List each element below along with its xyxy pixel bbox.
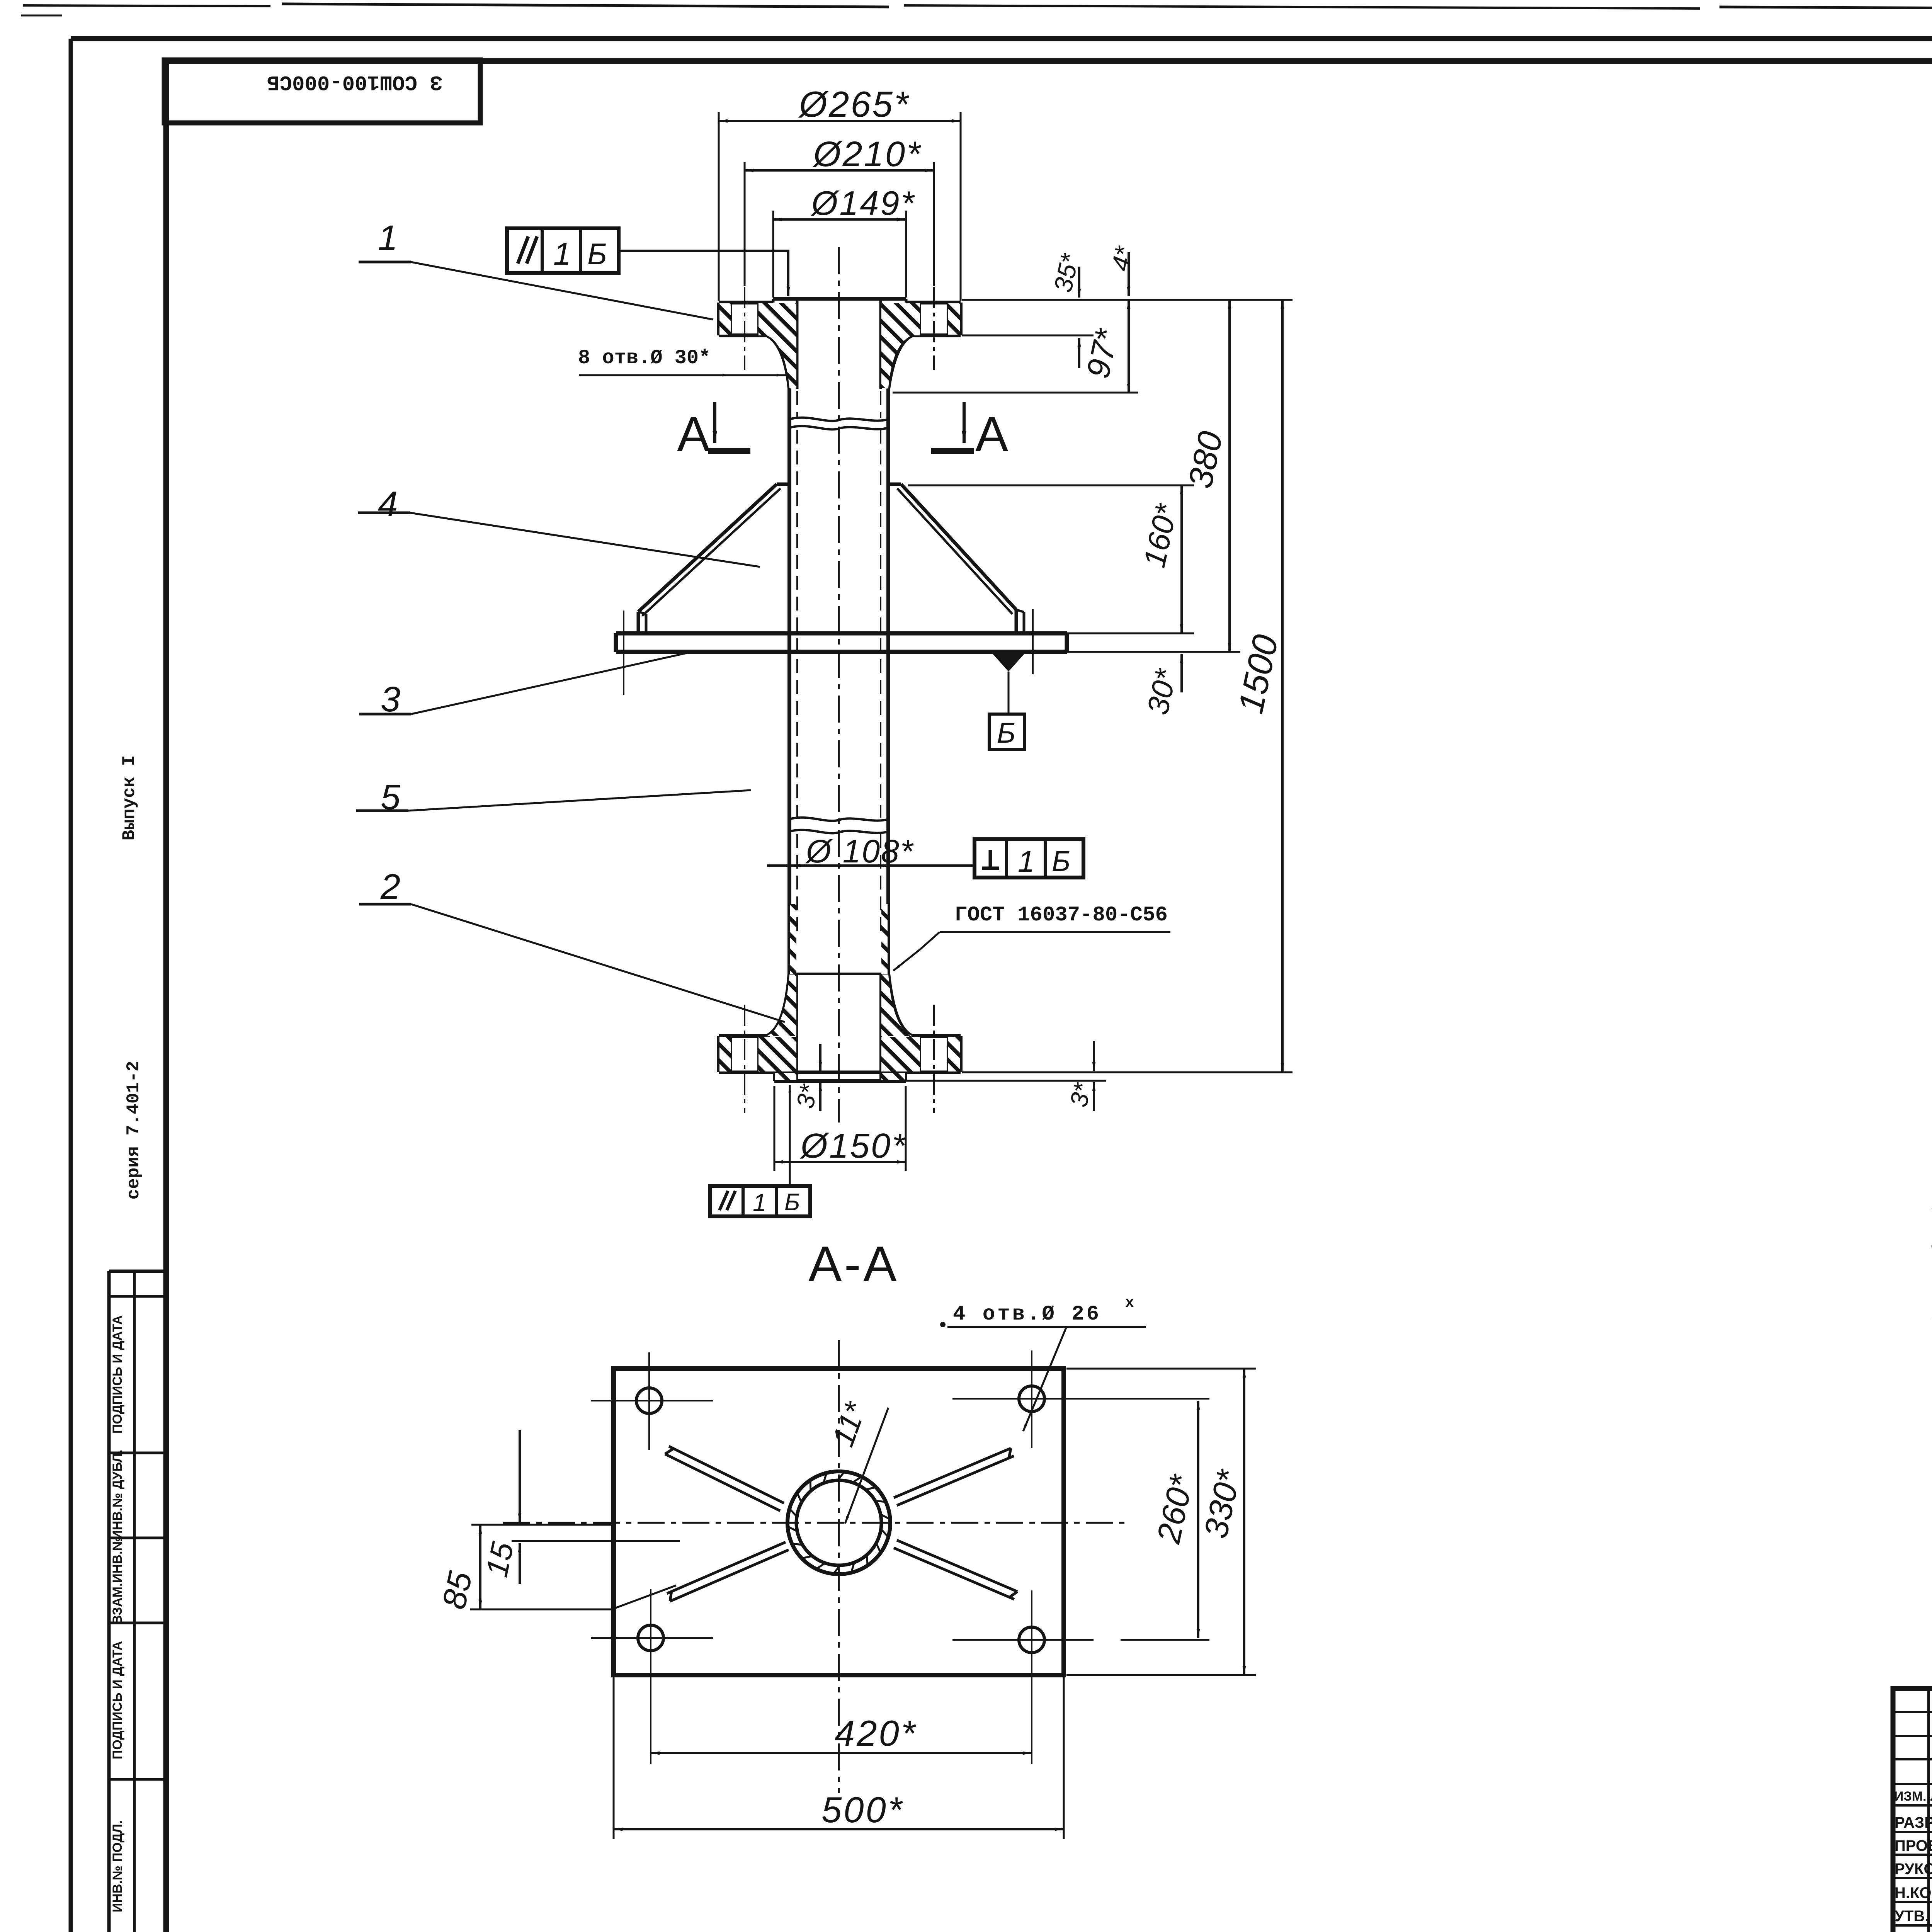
svg-text:А-А: А-А [808, 1236, 899, 1292]
svg-text:РАЗРАБ.: РАЗРАБ. [1895, 1814, 1932, 1831]
svg-text:500*: 500* [821, 1789, 904, 1830]
svg-text:Б: Б [997, 717, 1015, 749]
svg-text:РУКОВ.: РУКОВ. [1895, 1861, 1932, 1878]
svg-text:2: 2 [380, 867, 400, 906]
svg-text:ПРОВ.: ПРОВ. [1895, 1837, 1932, 1854]
svg-text:Ø149*: Ø149* [810, 184, 916, 222]
svg-text:УТВ.: УТВ. [1895, 1908, 1929, 1925]
svg-text:ИНВ.№ ПОДЛ.: ИНВ.№ ПОДЛ. [110, 1820, 125, 1912]
svg-text:ЛИСТ: ЛИСТ [1930, 1789, 1932, 1804]
svg-text:А: А [677, 407, 710, 462]
svg-text:1: 1 [1018, 844, 1034, 878]
svg-text:ПОДПИСЬ И ДАТА: ПОДПИСЬ И ДАТА [110, 1641, 125, 1759]
svg-text:Н.КОНТР.: Н.КОНТР. [1895, 1884, 1932, 1901]
svg-text:ГОСТ 16037-80-С56: ГОСТ 16037-80-С56 [955, 903, 1168, 927]
svg-text:Выпуск I: Выпуск I [119, 755, 139, 841]
svg-text:Ø150*: Ø150* [799, 1127, 907, 1165]
svg-text:4 отв.Ø 26: 4 отв.Ø 26 [953, 1303, 1101, 1326]
svg-text:1: 1 [378, 218, 398, 258]
svg-text:серия 7.401-2: серия 7.401-2 [124, 1061, 144, 1200]
svg-text:4: 4 [378, 485, 398, 524]
svg-text:420*: 420* [835, 1713, 917, 1753]
svg-text:ПОДПИСЬ И ДАТА: ПОДПИСЬ И ДАТА [110, 1315, 125, 1434]
svg-text:Ø210*: Ø210* [812, 134, 922, 174]
svg-text:Б: Б [784, 1189, 800, 1216]
svg-text:х: х [1125, 1295, 1134, 1311]
svg-text:ИЗМ.: ИЗМ. [1894, 1789, 1927, 1804]
svg-text:А: А [975, 407, 1009, 462]
svg-text:15: 15 [479, 1539, 520, 1580]
svg-text:Б: Б [587, 237, 607, 271]
svg-text:1: 1 [753, 1189, 767, 1216]
svg-text:ИНВ.№ ДУБЛ.: ИНВ.№ ДУБЛ. [110, 1449, 125, 1539]
svg-text:Б: Б [1052, 845, 1070, 877]
svg-text:1: 1 [553, 236, 571, 272]
svg-text:Ø 108*: Ø 108* [805, 833, 914, 869]
svg-text:З СОШ100-000СБ: З СОШ100-000СБ [267, 70, 442, 94]
svg-text:ВЗАМ.ИНВ.№: ВЗАМ.ИНВ.№ [110, 1536, 125, 1625]
svg-text:Ø265*: Ø265* [798, 84, 910, 124]
svg-text:8 отв.Ø 30*: 8 отв.Ø 30* [578, 347, 711, 369]
